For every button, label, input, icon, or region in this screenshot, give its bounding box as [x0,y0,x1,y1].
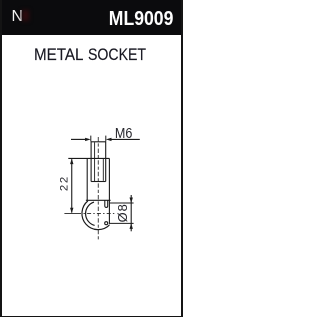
svg-text:Ø8: Ø8 [115,203,130,222]
svg-text:M6: M6 [115,125,133,141]
stud top edge [91,141,106,143]
shoulder line [86,199,111,201]
page border left [0,0,2,317]
stud bottom inside sleeve [91,181,106,183]
Ø8 extension line bottom [110,222,134,224]
horizontal centerline dashes [84,212,115,214]
red logo smudge [22,10,29,21]
Ø8 extension line top [110,202,134,204]
page border bottom [0,316,183,318]
sleeve top edge + 22 extension [68,157,109,159]
sleeve left edge [86,158,88,200]
vertical centerline [97,137,99,241]
thread line left [94,142,96,181]
stud right edge / hole right [105,142,107,182]
clip detail top [105,201,108,208]
part code ML9009 [109,8,174,31]
clip detail bottom [105,222,108,225]
stud left edge / hole left [90,142,92,182]
eye outer arc [82,201,109,230]
horizontal centerline long dash [64,212,81,214]
dim 22 line w/ arrows [71,159,73,212]
title METAL SOCKET [34,46,83,65]
socket cavity inner arc [86,202,95,225]
header bar [0,0,183,35]
M6 extension line right [105,136,107,142]
svg-text:22: 22 [58,175,70,191]
Ø8 dim line w/ arrows [130,195,132,231]
thread line right [102,159,104,181]
M6 dim line right w/ arrow [111,138,140,140]
brand letter N [12,8,23,26]
page border right [181,0,183,317]
M6 extension line left [90,136,92,142]
body right edge [108,158,110,224]
M6 dim line left w/ arrow [71,138,86,140]
